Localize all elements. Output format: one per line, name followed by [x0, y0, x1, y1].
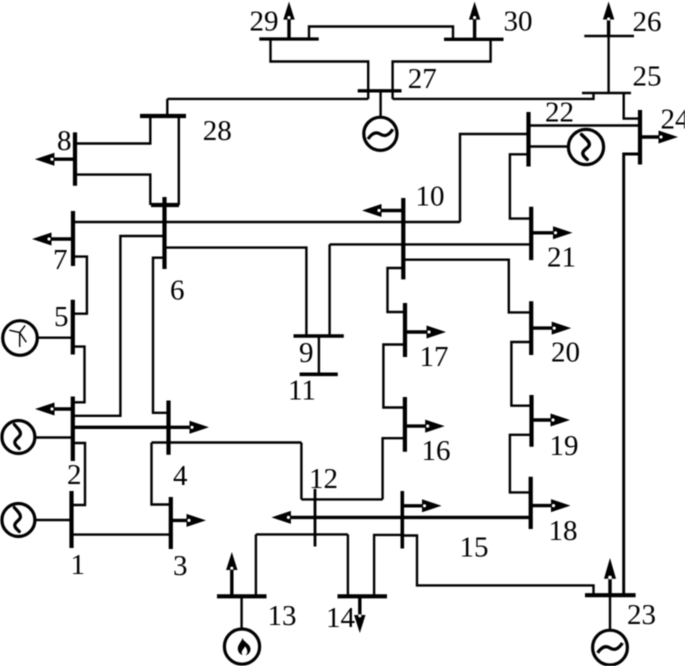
wire 25-27 (H1 right)	[393, 93, 594, 99]
wire 21-22	[510, 154, 531, 218]
wire H2 7-6-10-22	[73, 221, 460, 223]
wire 10-22 riser	[460, 134, 529, 222]
bus 17 bar	[403, 303, 407, 357]
svg-text:7: 7	[53, 244, 68, 276]
svg-text:23: 23	[627, 599, 656, 631]
wire 12-15-18 with load arrow bus 12	[271, 511, 530, 524]
load arrow bus 13	[226, 552, 237, 596]
svg-text:22: 22	[545, 97, 574, 129]
generator G27 stem	[379, 91, 381, 117]
wire 2-4 and load arrow bus 4	[73, 421, 209, 434]
svg-text:5: 5	[54, 301, 69, 333]
wire 14-15	[374, 535, 402, 596]
wire 9-10-21	[330, 243, 532, 245]
generator G27	[364, 117, 397, 150]
svg-text:24: 24	[661, 103, 685, 135]
wire 4-12 riser	[300, 443, 302, 500]
wire 27-28 (H1 left)	[167, 98, 368, 100]
svg-text:17: 17	[420, 341, 449, 373]
load arrow bus 20	[531, 322, 571, 335]
load arrow bus 26	[603, 2, 614, 37]
bus 11 bar	[300, 372, 338, 376]
wire 19-20	[511, 342, 531, 406]
svg-text:3: 3	[173, 550, 188, 582]
svg-text:14: 14	[326, 602, 356, 634]
generator G2 wire	[35, 436, 73, 438]
svg-text:28: 28	[203, 115, 232, 147]
wire 2-5	[73, 347, 85, 403]
load arrow bus 30	[469, 2, 480, 40]
svg-text:26: 26	[633, 6, 662, 38]
bus 21 bar	[529, 207, 533, 260]
svg-text:8: 8	[57, 125, 72, 157]
svg-text:15: 15	[460, 532, 489, 564]
load arrow bus 10	[362, 204, 403, 217]
wire 1-2	[72, 443, 86, 505]
load arrow bus 17	[405, 326, 446, 339]
svg-text:4: 4	[173, 460, 188, 492]
load arrow bus 15	[402, 499, 441, 512]
load arrow bus 2	[35, 403, 73, 416]
load arrow bus 24	[640, 131, 678, 144]
svg-text:10: 10	[416, 181, 445, 213]
wire 24-25	[624, 93, 640, 119]
bus 18 bar	[529, 477, 533, 529]
bus 1 bar	[69, 491, 73, 548]
svg-text:27: 27	[408, 63, 437, 95]
load arrow bus 7	[32, 233, 73, 246]
wire 18-19	[510, 435, 532, 493]
wire 29-27	[271, 39, 369, 99]
load arrow bus 3	[171, 514, 206, 527]
svg-text:21: 21	[547, 242, 576, 274]
svg-text:2: 2	[67, 459, 82, 491]
svg-text:29: 29	[250, 6, 279, 38]
bus 3 bar	[169, 497, 173, 549]
load arrow bus 14	[354, 596, 365, 633]
wire 29-30	[309, 27, 453, 40]
generator G5 wind	[3, 321, 38, 356]
load arrow bus 29	[283, 2, 294, 39]
bus 28 bar	[140, 114, 186, 118]
wire 4-6	[153, 258, 169, 413]
wire 27-28 riser	[166, 99, 168, 116]
bus 4 bar	[166, 401, 170, 455]
bus 7 bar	[71, 211, 75, 266]
bus 10 bar	[401, 198, 405, 279]
svg-text:1: 1	[71, 549, 86, 581]
wire 6-28 vertical	[178, 116, 180, 205]
bus 9 bar	[294, 334, 344, 338]
wire 13-12-14	[256, 533, 348, 535]
bus 12 bar	[314, 489, 317, 547]
wire 22-24	[529, 124, 641, 126]
bus 14 bar	[338, 594, 388, 598]
svg-text:25: 25	[633, 61, 662, 93]
bus 16 bar	[403, 397, 407, 452]
svg-text:19: 19	[550, 430, 579, 462]
bus 23 bar	[585, 593, 636, 597]
generator G1 wire	[35, 519, 72, 521]
wire 12-14 riser	[347, 534, 349, 596]
svg-text:12: 12	[309, 463, 338, 495]
wire 2-6	[73, 236, 165, 416]
wire 3-4 riser	[152, 443, 171, 505]
svg-text:16: 16	[422, 435, 451, 467]
svg-text:9: 9	[299, 337, 314, 369]
generator G23	[593, 630, 628, 665]
load arrow bus 16	[405, 420, 445, 433]
bus 30 bar	[444, 38, 504, 41]
wire 25-26	[607, 36, 609, 93]
wire 6-9	[165, 248, 307, 336]
load arrow bus 8	[35, 153, 75, 166]
svg-text:18: 18	[549, 515, 578, 547]
bus 8 bar	[73, 132, 77, 185]
bus 20 bar	[529, 301, 533, 355]
generator G22	[568, 129, 603, 164]
svg-text:30: 30	[504, 6, 533, 38]
wire 16-17	[383, 345, 405, 408]
bus 22 bar	[526, 112, 530, 167]
bus 13 bar	[217, 594, 267, 598]
generator G22 stem	[529, 145, 570, 147]
bus 27 bar	[358, 89, 402, 92]
bus 25 bar	[582, 92, 631, 95]
bus 19 bar	[529, 395, 533, 447]
bus 24 bar	[638, 110, 642, 165]
wire 6-8 lower	[75, 175, 150, 205]
wire 8-28 upper	[75, 116, 150, 144]
wire 4-12-16 junction	[301, 498, 382, 500]
load arrow bus 19	[532, 414, 571, 427]
bus 2 bar	[71, 397, 75, 462]
generator G13 stem	[240, 596, 242, 629]
load arrow bus 23	[604, 558, 616, 595]
bus 6 bar	[162, 197, 166, 269]
svg-text:13: 13	[268, 600, 297, 632]
wire 10-20	[403, 260, 531, 313]
generator G13 flame	[224, 629, 259, 664]
wire 9-10 riser	[328, 244, 330, 336]
wire 1-3	[72, 533, 171, 535]
svg-text:6: 6	[170, 275, 185, 307]
load arrow bus 21	[531, 226, 572, 239]
bus 29 bar	[259, 37, 318, 40]
wire 30-27	[393, 39, 491, 99]
wire 23-24	[624, 154, 640, 595]
wire 15-23	[402, 536, 593, 596]
load arrow bus 18	[531, 499, 571, 512]
generator G2	[2, 421, 35, 454]
wire 9-11	[318, 336, 320, 374]
wire 12-13 riser	[255, 534, 257, 596]
wire 12-16	[383, 438, 405, 499]
wire 3-4-12 (H4)	[152, 441, 302, 443]
wire 5-7	[73, 257, 87, 314]
junction bar 28-6-8	[151, 203, 179, 207]
generator G23 stem	[609, 595, 611, 630]
bus 26 bar	[584, 35, 634, 38]
generator G1	[2, 504, 35, 537]
bus 5 bar	[71, 300, 75, 355]
svg-text:20: 20	[551, 337, 580, 369]
wire 10-17	[388, 268, 406, 312]
svg-text:11: 11	[288, 375, 316, 407]
bus 15 bar	[400, 491, 404, 549]
generator G5 wire	[37, 337, 72, 339]
